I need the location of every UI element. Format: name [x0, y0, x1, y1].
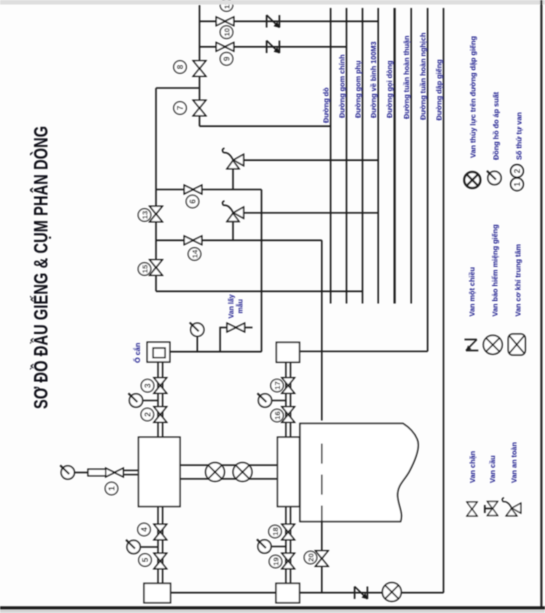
svg-text:4: 4 — [140, 527, 149, 532]
gauge right upper stub — [272, 400, 286, 402]
node 16 circle — [271, 409, 284, 422]
valve 13 — [150, 206, 163, 222]
legend wellhead safety valve symbol — [483, 335, 502, 354]
svg-text:13: 13 — [140, 211, 149, 219]
svg-text:Số thứ tự van: Số thứ tự van — [515, 112, 524, 160]
svg-text:SƠ ĐỒ ĐẦU GIẾNG & CỤM PHÂN DÒN: SƠ ĐỒ ĐẦU GIẾNG & CỤM PHÂN DÒNG — [29, 126, 52, 409]
check valve H2 — [267, 41, 280, 54]
wire H126 to duong do — [200, 125, 331, 127]
svg-text:Đường gọi dòng: Đường gọi dòng — [385, 61, 394, 118]
svg-text:6: 6 — [189, 199, 198, 204]
node 7 circle — [174, 102, 187, 115]
svg-text:18: 18 — [271, 527, 280, 535]
node 3 circle — [141, 379, 154, 392]
safety valve B — [222, 201, 243, 222]
valve 7 — [193, 100, 206, 116]
page right border line — [540, 0, 542, 608]
svg-text:Van bảo hiểm miệng giếng: Van bảo hiểm miệng giếng — [491, 224, 500, 316]
valve 2 — [154, 407, 167, 423]
valve 5 — [154, 553, 167, 569]
legend globe valve symbol — [485, 501, 498, 515]
node 4 circle — [138, 523, 151, 536]
legend gate valve symbol — [467, 502, 477, 516]
wire H2 header branch — [200, 46, 347, 48]
valve 9 bowtie — [216, 43, 234, 52]
wire H86 link V2 to V-left — [156, 87, 200, 89]
svg-text:10: 10 — [222, 28, 231, 36]
svg-text:Đường tuần hoàn thuận: Đường tuần hoàn thuận — [402, 36, 411, 119]
inlet gauge — [60, 465, 74, 479]
valve 17 — [282, 378, 295, 394]
svg-text:Van cầu: Van cầu — [488, 455, 497, 483]
valve 20 — [316, 551, 329, 567]
right column double pipe lower — [286, 507, 291, 584]
svg-text:mẫu: mẫu — [236, 299, 245, 313]
inlet spool — [88, 469, 106, 476]
header line 7 Duong tuan hoan nghich — [427, 8, 429, 351]
gauge left lower — [126, 540, 140, 554]
svg-text:17: 17 — [273, 381, 282, 389]
tank broken outline — [300, 424, 418, 522]
svg-text:2: 2 — [143, 412, 152, 417]
O can box — [147, 342, 170, 362]
legend gauge symbol — [487, 171, 501, 185]
node 17 circle — [271, 379, 284, 392]
svg-text:3: 3 — [144, 383, 153, 388]
wire safety stub 2 — [232, 221, 234, 240]
right top box — [276, 342, 299, 362]
page bottom scan band — [0, 610, 545, 613]
gauge left lower stub — [140, 546, 158, 548]
svg-text:16: 16 — [273, 411, 282, 419]
wire V-left manifold riser — [155, 88, 157, 291]
svg-text:1: 1 — [108, 486, 117, 491]
svg-text:19: 19 — [271, 557, 280, 565]
safety valve A — [222, 148, 243, 169]
wire sample loop — [220, 328, 252, 352]
wire Vmid drop — [261, 190, 263, 352]
node 9 circle — [220, 53, 233, 66]
svg-text:Đồng hồ đo áp suất: Đồng hồ đo áp suất — [492, 91, 501, 160]
legend number symbol — [511, 165, 524, 191]
valve 18 — [282, 524, 295, 540]
svg-text:Đường tuần hoàn nghịch: Đường tuần hoàn nghịch — [418, 33, 427, 120]
check valve H1 — [267, 15, 280, 28]
node 2 circle — [141, 408, 154, 421]
svg-text:1: 1 — [513, 182, 522, 187]
node 10 circle — [220, 26, 233, 39]
node 5 circle — [139, 554, 152, 567]
node 18 circle — [269, 525, 282, 538]
header line 2 Duong gom chinh — [346, 8, 348, 304]
header line 6 Duong tuan hoan thuan — [410, 8, 412, 304]
svg-text:Van lấy: Van lấy — [228, 294, 236, 318]
legend central mech valve symbol — [508, 334, 525, 355]
gauge sample — [190, 323, 204, 337]
valve sample bowtie — [227, 323, 245, 332]
valve 6 bowtie — [184, 185, 202, 194]
svg-text:Van một chiều: Van một chiều — [468, 267, 477, 316]
inlet wire — [75, 472, 89, 474]
node 1 circle — [105, 482, 118, 495]
svg-text:8: 8 — [176, 64, 185, 69]
right wellhead block — [278, 437, 300, 506]
node 6 circle — [186, 195, 199, 208]
svg-text:14: 14 — [190, 249, 199, 258]
node 8 circle — [174, 61, 187, 74]
node 20 circle — [304, 551, 317, 564]
left column double pipe upper — [158, 362, 163, 437]
left wellhead block — [139, 437, 181, 506]
valve 8 — [193, 61, 206, 77]
wire O can line — [170, 351, 262, 353]
hydraulic valve kill line — [382, 583, 401, 602]
valve 14 bowtie — [184, 236, 202, 245]
header line 8 Duong dap gieng — [443, 8, 445, 593]
right bottom box — [276, 583, 300, 602]
svg-text:Ổ cắn: Ổ cắn — [133, 343, 142, 363]
gauge right lower — [257, 539, 271, 553]
left bottom box — [144, 583, 171, 602]
node 19 circle — [269, 555, 282, 568]
check valve bottom — [355, 587, 368, 600]
svg-text:Van cơ khí trung tâm: Van cơ khí trung tâm — [514, 243, 523, 316]
hydraulic valve X1 — [206, 463, 225, 482]
header line 4 Duong ve binh 100M3 — [377, 8, 379, 304]
svg-text:9: 9 — [223, 56, 232, 61]
svg-text:2: 2 — [513, 168, 522, 173]
page top scan band — [0, 0, 545, 5]
header line 1 Duong do — [330, 8, 332, 304]
legend check valve symbol — [465, 340, 479, 351]
flowline lower between blocks — [180, 478, 278, 480]
hydraulic valve X2 — [233, 463, 252, 482]
svg-text:7: 7 — [176, 105, 185, 110]
svg-text:Van thủy lực trên đường dập gi: Van thủy lực trên đường dập giếng — [469, 36, 478, 158]
svg-text:Đường dập giếng: Đường dập giếng — [434, 59, 443, 120]
node 14 circle — [188, 248, 201, 261]
svg-text:Đường về bình 100M3: Đường về bình 100M3 — [369, 41, 378, 118]
wire Vlong lower — [321, 522, 323, 593]
legend safety valve symbol — [502, 498, 521, 516]
valve 15 — [150, 260, 163, 276]
wire Vlong dashed through tank — [321, 444, 323, 522]
valve 19 — [282, 553, 295, 569]
node 15 circle — [138, 263, 151, 276]
wire bottom kill line right — [300, 592, 444, 594]
legend hydraulic valve symbol — [464, 172, 480, 188]
wire safety discharge 2 — [243, 212, 378, 214]
wire Vlong upper — [321, 240, 323, 420]
inlet double pipe — [123, 469, 138, 471]
left column double pipe lower — [158, 507, 163, 584]
valve 16 — [282, 407, 295, 423]
valve 10 bowtie — [216, 17, 234, 26]
wire V2 test-line riser — [199, 5, 201, 126]
svg-text:Đường gom chính: Đường gom chính — [337, 54, 346, 118]
svg-text:5: 5 — [141, 557, 150, 562]
flowline upper between blocks — [180, 464, 278, 466]
wire H240 branch — [156, 239, 322, 241]
wire safety stub 1 — [232, 169, 234, 190]
svg-text:Đường gom phụ: Đường gom phụ — [353, 61, 362, 118]
wire H1 header branch — [200, 20, 379, 22]
node 13 circle — [138, 209, 151, 222]
gauge left upper — [128, 393, 142, 407]
wire H291 branch — [156, 290, 363, 292]
node 11 circle partial — [220, 0, 233, 11]
wire H189 branch — [156, 189, 262, 191]
header line 5 Duong goi dong — [394, 8, 396, 304]
svg-text:15: 15 — [140, 264, 149, 273]
svg-text:20: 20 — [306, 553, 315, 561]
gauge right lower stub — [271, 546, 286, 548]
wire bottom kill line left — [170, 592, 276, 594]
inlet valve bowtie — [106, 468, 124, 477]
wire sample gauge stub — [196, 337, 198, 352]
valve 4 — [154, 524, 167, 540]
right column double pipe upper — [286, 362, 291, 437]
svg-text:Van chặn: Van chặn — [468, 451, 477, 483]
header line 3 Duong gom phu — [362, 8, 364, 304]
gauge left upper stub — [143, 400, 159, 402]
svg-text:Van an toàn: Van an toàn — [510, 442, 519, 483]
svg-text:Đường dò: Đường dò — [321, 87, 330, 123]
gauge right upper — [257, 393, 271, 407]
page bottom border line — [0, 606, 545, 609]
wire safety discharge 1 — [243, 159, 378, 161]
wire right box to line 7 — [300, 350, 428, 352]
valve 3 — [154, 378, 167, 394]
